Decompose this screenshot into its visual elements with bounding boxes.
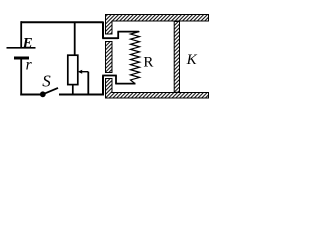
wire: branch down from top wire to rheostat	[74, 22, 76, 55]
wire: jog up to lower feedthrough	[115, 76, 117, 85]
wire: vertical from top wire down to upper feedthrough	[102, 22, 104, 39]
wire: wiper down to bottom wire	[87, 72, 89, 95]
svg-text:R: R	[143, 55, 153, 71]
cylinder wall: top wall + upper left wall segment (hatched)	[106, 15, 209, 35]
wire: left vertical wire battery top	[20, 21, 22, 47]
wire: upper feedthrough through wall gap	[102, 37, 118, 39]
svg-text:E: E	[22, 35, 33, 51]
wire: vertical down to bottom wire	[102, 76, 104, 96]
wire: jog up inside container	[117, 32, 119, 39]
cylinder wall: bottom wall + lower left wall segment (hatched)	[106, 79, 209, 99]
wire: top lead to resistor R	[117, 31, 139, 33]
svg-text:K: K	[186, 52, 198, 68]
cylinder wall: middle left wall segment (hatched)	[106, 42, 113, 73]
switch S : contact dot	[40, 91, 46, 97]
battery E r : short thick plate (negative)	[14, 57, 29, 60]
rheostat bottom lead	[72, 85, 74, 95]
wire: top wire from battery to container wall	[21, 21, 103, 23]
wire: lower feedthrough through wall gap	[102, 75, 117, 77]
svg-text:S: S	[42, 72, 51, 91]
rheostat wiper arrow	[81, 71, 88, 73]
wire: left vertical wire battery bottom	[20, 60, 22, 96]
piston K (hatched)	[174, 22, 179, 93]
battery E r : long thin plate (positive)	[7, 47, 36, 49]
svg-text:r: r	[26, 57, 33, 74]
resistor R zigzag heater	[131, 32, 140, 84]
switch S : open lever	[43, 88, 58, 94]
wire: bottom wire from switch to right corner	[59, 94, 104, 96]
wire: bottom wire from battery to switch dot	[20, 94, 42, 96]
rheostat (variable resistor) box	[68, 55, 78, 84]
wire: bottom lead from resistor	[116, 83, 136, 85]
